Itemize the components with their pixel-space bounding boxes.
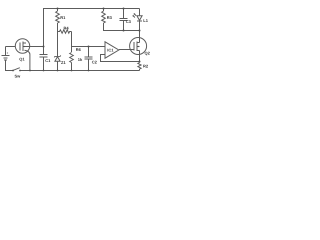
- svg-text:+: +: [7, 51, 9, 55]
- svg-text:Z1: Z1: [61, 60, 66, 65]
- svg-text:C1: C1: [45, 58, 51, 63]
- svg-text:C3: C3: [126, 19, 132, 24]
- svg-text:Q2: Q2: [145, 51, 151, 56]
- svg-text:Sw: Sw: [15, 74, 22, 79]
- svg-text:Q1: Q1: [19, 57, 25, 62]
- svg-text:R4: R4: [64, 25, 70, 30]
- svg-text:IC1: IC1: [107, 47, 114, 52]
- svg-text:1k: 1k: [78, 57, 83, 62]
- svg-text:R3: R3: [107, 15, 113, 20]
- svg-text:L1: L1: [143, 18, 148, 23]
- svg-text:R2: R2: [143, 64, 149, 69]
- svg-text:C2: C2: [92, 60, 98, 65]
- svg-text:R6: R6: [76, 47, 82, 52]
- svg-text:R1: R1: [60, 15, 66, 20]
